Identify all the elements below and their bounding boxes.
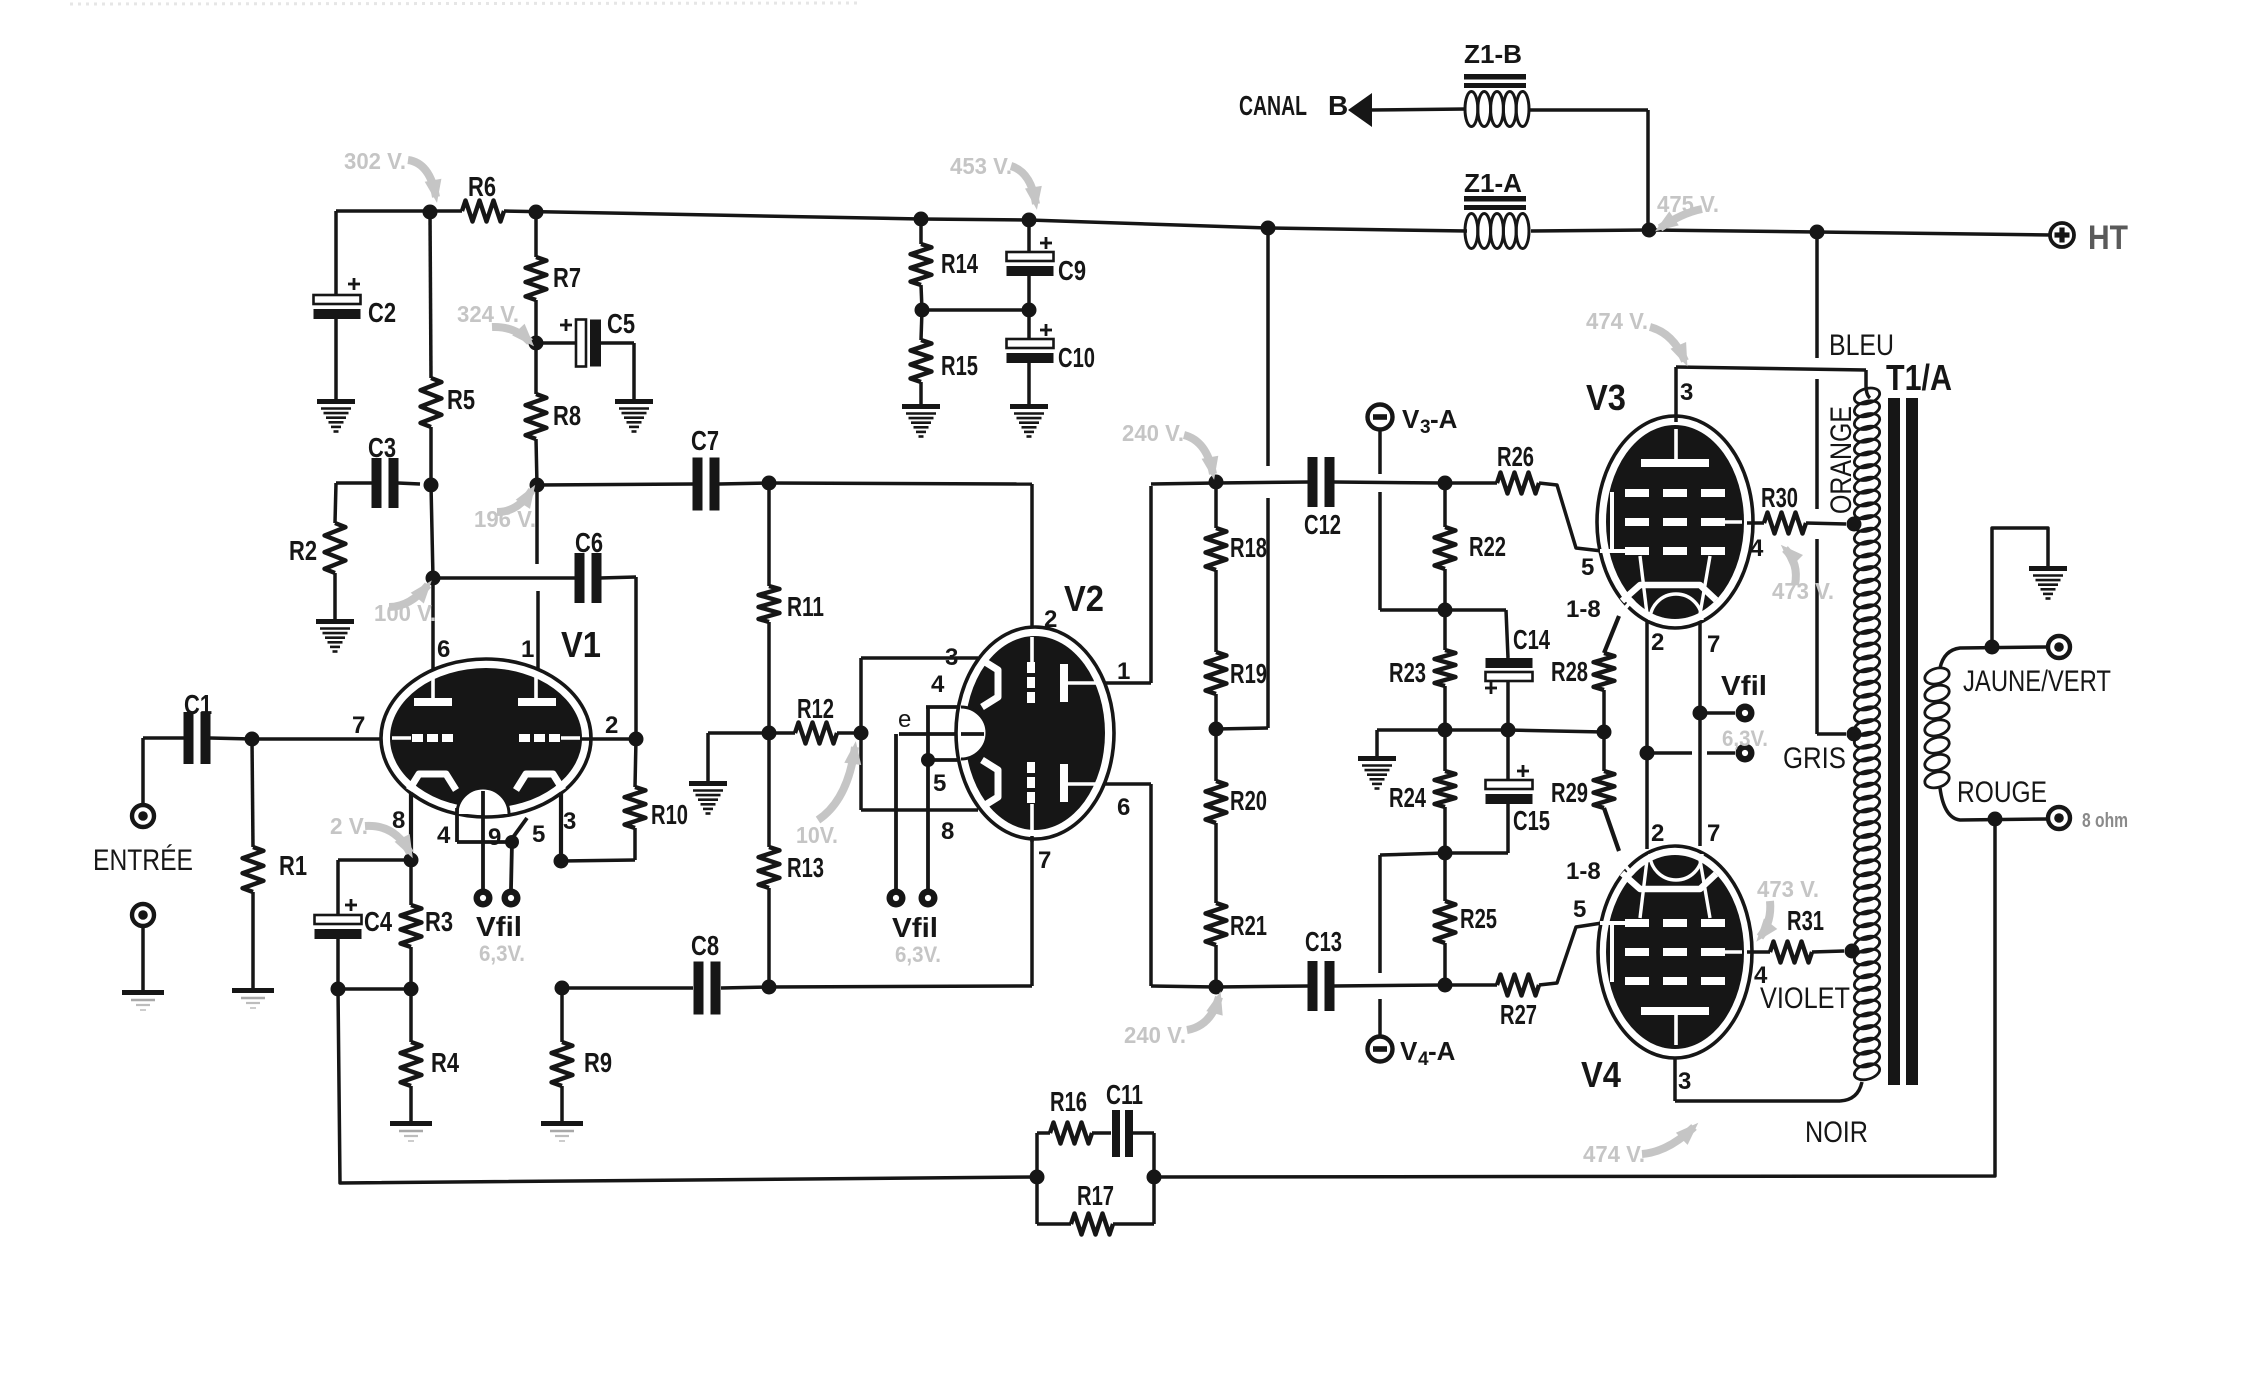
svg-text:R16: R16: [1050, 1086, 1087, 1117]
svg-text:C8: C8: [691, 930, 719, 961]
svg-text:4: 4: [931, 671, 945, 698]
svg-text:1-8: 1-8: [1566, 858, 1601, 885]
svg-text:-A: -A: [1428, 1036, 1456, 1066]
svg-text:10V.: 10V.: [796, 822, 838, 848]
svg-text:R1: R1: [279, 850, 307, 881]
svg-text:C13: C13: [1305, 926, 1342, 957]
svg-text:R4: R4: [431, 1047, 459, 1078]
svg-text:C3: C3: [368, 432, 396, 463]
svg-text:R18: R18: [1230, 532, 1267, 563]
svg-text:2: 2: [1651, 820, 1664, 847]
svg-text:5: 5: [532, 821, 545, 848]
svg-text:V4: V4: [1581, 1054, 1621, 1095]
svg-text:C6: C6: [575, 527, 603, 558]
svg-text:240 V.: 240 V.: [1124, 1022, 1186, 1048]
svg-text:NOIR: NOIR: [1805, 1116, 1868, 1149]
svg-text:C15: C15: [1513, 805, 1550, 836]
svg-text:C11: C11: [1106, 1079, 1143, 1110]
svg-text:8 ohm: 8 ohm: [2082, 810, 2128, 832]
svg-text:2: 2: [1044, 606, 1057, 633]
svg-text:R3: R3: [425, 906, 453, 937]
svg-text:7: 7: [1707, 631, 1720, 658]
svg-text:2: 2: [1651, 629, 1664, 656]
svg-text:-A: -A: [1430, 404, 1458, 434]
svg-text:453 V.: 453 V.: [950, 153, 1012, 179]
svg-text:R8: R8: [553, 400, 581, 431]
svg-text:R12: R12: [797, 693, 834, 724]
svg-text:6: 6: [437, 636, 450, 663]
svg-text:3: 3: [1680, 379, 1693, 406]
svg-text:V: V: [1400, 1036, 1418, 1066]
svg-text:V1: V1: [561, 624, 601, 665]
svg-text:C4: C4: [364, 906, 392, 937]
svg-text:V: V: [1402, 404, 1420, 434]
svg-text:3: 3: [1678, 1068, 1691, 1095]
svg-text:R6: R6: [468, 171, 496, 202]
svg-text:R21: R21: [1230, 910, 1267, 941]
svg-text:R13: R13: [787, 852, 824, 883]
svg-text:Z1-B: Z1-B: [1464, 39, 1522, 69]
svg-text:7: 7: [352, 712, 365, 739]
svg-text:T1/A: T1/A: [1886, 357, 1952, 398]
svg-text:Vfil: Vfil: [476, 911, 522, 942]
svg-text:R29: R29: [1551, 777, 1588, 808]
svg-text:6: 6: [1117, 794, 1130, 821]
svg-text:R14: R14: [941, 248, 978, 279]
svg-text:2 V.: 2 V.: [330, 813, 368, 839]
svg-text:6,3V.: 6,3V.: [895, 942, 941, 967]
svg-text:C2: C2: [368, 297, 396, 328]
svg-text:R7: R7: [553, 262, 581, 293]
svg-text:9: 9: [488, 824, 501, 851]
svg-text:GRIS: GRIS: [1783, 742, 1846, 775]
svg-text:ENTRÉE: ENTRÉE: [93, 844, 193, 877]
svg-text:4: 4: [437, 822, 451, 849]
svg-text:C1: C1: [184, 689, 212, 720]
svg-text:R30: R30: [1761, 482, 1798, 513]
svg-text:Vfil: Vfil: [892, 912, 938, 943]
svg-text:R24: R24: [1389, 782, 1426, 813]
svg-text:4: 4: [1750, 535, 1764, 562]
svg-text:R11: R11: [787, 591, 824, 622]
svg-text:ORANGE: ORANGE: [1825, 406, 1858, 514]
svg-text:R25: R25: [1460, 903, 1497, 934]
svg-text:R26: R26: [1497, 441, 1534, 472]
svg-text:R22: R22: [1469, 531, 1506, 562]
svg-text:8: 8: [941, 818, 954, 845]
svg-text:3: 3: [563, 808, 576, 835]
svg-text:R9: R9: [584, 1047, 612, 1078]
svg-text:e: e: [898, 706, 911, 733]
svg-text:240 V.: 240 V.: [1122, 420, 1184, 446]
svg-text:Vfil: Vfil: [1721, 670, 1767, 701]
svg-text:R31: R31: [1787, 905, 1824, 936]
svg-text:R5: R5: [447, 384, 475, 415]
svg-text:R2: R2: [289, 535, 317, 566]
svg-text:R27: R27: [1500, 999, 1537, 1030]
svg-text:474 V.: 474 V.: [1586, 308, 1648, 334]
svg-text:C10: C10: [1058, 342, 1095, 373]
svg-text:1: 1: [1117, 658, 1130, 685]
svg-text:JAUNE/VERT: JAUNE/VERT: [1963, 665, 2111, 698]
svg-text:BLEU: BLEU: [1829, 329, 1894, 362]
svg-text:6,3V.: 6,3V.: [479, 941, 525, 966]
svg-text:R10: R10: [651, 799, 688, 830]
svg-text:C14: C14: [1513, 624, 1550, 655]
svg-text:VIOLET: VIOLET: [1760, 982, 1850, 1015]
svg-text:7: 7: [1038, 847, 1051, 874]
svg-text:473 V.: 473 V.: [1772, 578, 1834, 604]
svg-text:7: 7: [1707, 820, 1720, 847]
svg-text:2: 2: [605, 712, 618, 739]
svg-text:V3: V3: [1586, 377, 1626, 418]
svg-text:473 V.: 473 V.: [1757, 876, 1819, 902]
svg-text:C12: C12: [1304, 509, 1341, 540]
svg-text:R23: R23: [1389, 657, 1426, 688]
svg-text:3: 3: [1420, 417, 1431, 438]
svg-text:324 V.: 324 V.: [457, 301, 519, 327]
svg-text:R19: R19: [1230, 658, 1267, 689]
svg-text:C5: C5: [607, 308, 635, 339]
svg-text:R17: R17: [1077, 1180, 1114, 1211]
svg-text:R15: R15: [941, 350, 978, 381]
svg-text:CANAL: CANAL: [1239, 90, 1307, 121]
svg-text:V2: V2: [1064, 578, 1104, 619]
svg-text:C7: C7: [691, 425, 719, 456]
svg-text:3: 3: [945, 644, 958, 671]
svg-text:474 V.: 474 V.: [1583, 1141, 1645, 1167]
svg-text:R28: R28: [1551, 656, 1588, 687]
svg-text:B: B: [1328, 90, 1348, 121]
svg-text:1: 1: [521, 636, 534, 663]
svg-text:ROUGE: ROUGE: [1957, 776, 2047, 809]
svg-text:6,3V.: 6,3V.: [1722, 726, 1768, 751]
svg-text:5: 5: [1573, 896, 1586, 923]
svg-text:HT: HT: [2088, 219, 2128, 257]
svg-text:5: 5: [1581, 554, 1594, 581]
svg-text:R20: R20: [1230, 785, 1267, 816]
svg-text:302 V.: 302 V.: [344, 148, 406, 174]
svg-text:Z1-A: Z1-A: [1464, 168, 1522, 198]
svg-text:5: 5: [933, 770, 946, 797]
svg-text:C9: C9: [1058, 255, 1086, 286]
svg-text:1-8: 1-8: [1566, 596, 1601, 623]
